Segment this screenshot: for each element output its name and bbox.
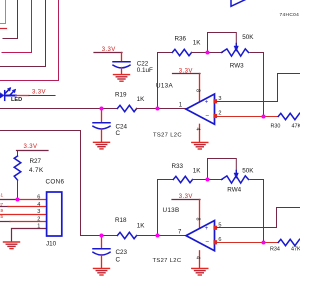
svg-text:−: − <box>205 239 209 246</box>
svg-text:1K: 1K <box>137 223 146 230</box>
svg-text:C23: C23 <box>116 249 128 256</box>
svg-text:1: 1 <box>179 103 183 109</box>
svg-text:15: 15 <box>0 214 4 219</box>
svg-text:8: 8 <box>195 89 201 92</box>
svg-text:C: C <box>116 257 121 264</box>
svg-text:3: 3 <box>37 209 40 215</box>
svg-text:37: 37 <box>0 202 4 207</box>
svg-text:7: 7 <box>178 230 182 236</box>
svg-text:U13B: U13B <box>163 207 180 214</box>
svg-text:RW4: RW4 <box>227 187 241 194</box>
svg-text:3: 3 <box>218 96 221 102</box>
svg-text:1K: 1K <box>137 96 146 103</box>
svg-text:3.3V: 3.3V <box>32 90 46 96</box>
svg-text:2: 2 <box>37 216 40 222</box>
svg-text:C: C <box>116 130 121 137</box>
svg-text:0.1uF: 0.1uF <box>137 67 153 74</box>
svg-text:4: 4 <box>195 256 201 259</box>
svg-text:4.7K: 4.7K <box>29 167 44 174</box>
svg-text:19: 19 <box>0 208 4 213</box>
svg-text:74HC04: 74HC04 <box>280 12 300 18</box>
svg-text:47K: 47K <box>292 124 301 130</box>
svg-text:R34: R34 <box>270 246 280 252</box>
svg-text:4: 4 <box>37 202 40 208</box>
svg-text:1K: 1K <box>193 40 202 47</box>
svg-text:2: 2 <box>218 111 221 117</box>
svg-text:TS27 L2C: TS27 L2C <box>153 133 182 139</box>
svg-text:6: 6 <box>37 195 40 201</box>
svg-text:47K: 47K <box>291 246 300 252</box>
svg-text:TS27 L2C: TS27 L2C <box>153 258 182 264</box>
svg-text:R27: R27 <box>30 158 42 165</box>
svg-text:4: 4 <box>195 128 201 131</box>
svg-text:1: 1 <box>37 224 40 230</box>
svg-text:LED: LED <box>11 97 22 103</box>
svg-text:3.3V: 3.3V <box>24 144 38 150</box>
svg-text:6: 6 <box>218 237 221 243</box>
svg-text:8: 8 <box>195 218 201 221</box>
svg-text:−: − <box>205 112 209 119</box>
svg-text:R36: R36 <box>175 36 187 43</box>
svg-text:R30: R30 <box>271 124 281 130</box>
svg-text:J10: J10 <box>46 241 57 248</box>
svg-text:U13A: U13A <box>156 83 173 90</box>
svg-text:1K: 1K <box>193 167 202 174</box>
svg-text:RW3: RW3 <box>230 63 244 70</box>
svg-text:CON6: CON6 <box>46 179 65 186</box>
svg-text:5: 5 <box>218 222 221 228</box>
svg-text:R18: R18 <box>115 217 127 224</box>
svg-text:50K: 50K <box>242 34 254 41</box>
svg-text:+: + <box>205 226 209 232</box>
svg-text:+: + <box>205 99 209 105</box>
svg-text:41: 41 <box>0 193 4 198</box>
svg-text:R33: R33 <box>172 163 184 170</box>
svg-text:50K: 50K <box>242 168 254 175</box>
svg-text:R19: R19 <box>115 92 127 99</box>
